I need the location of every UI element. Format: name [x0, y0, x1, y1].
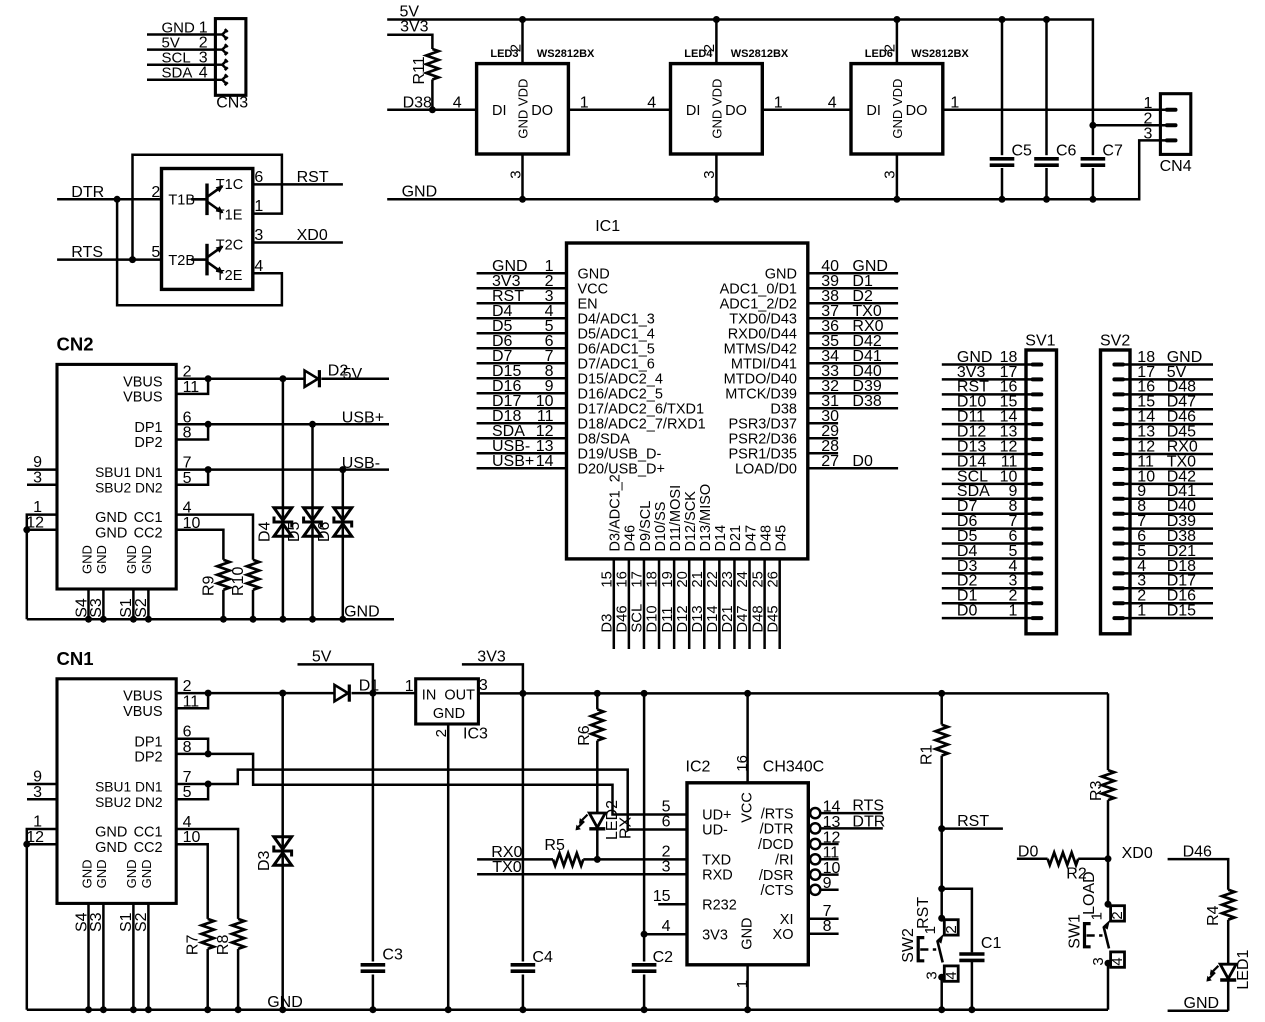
svg-text:VBUS: VBUS — [123, 390, 163, 406]
svg-text:D12: D12 — [675, 605, 691, 632]
svg-text:MTMS/D42: MTMS/D42 — [724, 341, 797, 357]
svg-text:/CTS: /CTS — [760, 883, 793, 899]
wire net D38 to LED3 DI — [387, 109, 476, 112]
SV2 pin 7 net D39 — [1124, 527, 1214, 530]
CN1 shield pin S3 — [102, 903, 105, 1010]
svg-text:T2C: T2C — [216, 237, 243, 253]
svg-text:RXD: RXD — [702, 868, 733, 884]
svg-text:3: 3 — [662, 858, 671, 875]
SV2 pin 8 net D40 — [1124, 512, 1214, 515]
svg-text:PSR2/D36: PSR2/D36 — [728, 431, 797, 447]
svg-text:D13/MISO: D13/MISO — [698, 484, 714, 552]
wire LED4 DO to LED6 DI — [762, 109, 851, 112]
svg-text:S2: S2 — [133, 598, 150, 618]
connector CN4 — [1160, 94, 1190, 155]
IC1 pin 12 D8/SDA — [477, 437, 567, 440]
wire LED3 GND pin 3 to GND — [521, 154, 524, 199]
IC2 pin 10 /DSR — [810, 870, 820, 880]
svg-text:IC1: IC1 — [595, 218, 620, 235]
svg-text:4: 4 — [1109, 957, 1126, 965]
svg-text:SBU1: SBU1 — [95, 780, 131, 795]
wire C1 branch — [942, 889, 972, 953]
svg-text:D15: D15 — [1167, 603, 1196, 620]
svg-text:D10: D10 — [645, 605, 661, 632]
junction R8 gnd — [235, 1006, 242, 1013]
IC1 pin 3 EN — [477, 302, 567, 305]
WS2812B LED LED4 — [671, 64, 763, 154]
SV2 pin 17 net 5V — [1124, 378, 1214, 381]
wire net GND rail bottom — [27, 1008, 1108, 1011]
svg-text:D47: D47 — [743, 525, 759, 552]
junction GND rail — [309, 616, 316, 623]
svg-text:3V3: 3V3 — [702, 927, 728, 943]
TVS diode D6 — [342, 470, 345, 620]
junction C5 GND — [999, 196, 1006, 203]
IC1 pin 36 RXD0/D44 — [808, 332, 898, 335]
wire C4 vertical — [522, 693, 525, 1009]
junction C7 pin2 — [1089, 122, 1096, 129]
wire R5 to IC2 TXD — [583, 858, 687, 861]
CN3 female pin 3 — [215, 63, 222, 65]
svg-text:PSR3/D37: PSR3/D37 — [728, 416, 797, 432]
IC2 pin 13 /DTR — [810, 823, 820, 833]
svg-text:SV2: SV2 — [1100, 332, 1130, 349]
capacitor C4 — [509, 962, 537, 975]
svg-text:TX0: TX0 — [492, 859, 521, 876]
SV1 pin 10 net SCL — [942, 483, 1033, 486]
IC2 pin 14 /RTS — [810, 808, 820, 818]
svg-text:3: 3 — [479, 677, 488, 694]
SV1 pin 18 net GND — [942, 363, 1033, 366]
svg-text:D15/ADC2_4: D15/ADC2_4 — [578, 371, 663, 387]
svg-text:/DSR: /DSR — [759, 868, 794, 884]
svg-text:C2: C2 — [653, 949, 674, 966]
SV2 pin 3 net D17 — [1124, 587, 1214, 590]
svg-text:D46: D46 — [615, 605, 631, 632]
svg-text:DO: DO — [906, 103, 928, 119]
svg-text:D13: D13 — [690, 605, 706, 632]
wire LED6 DO to CN4 pin 1 — [943, 109, 1167, 112]
svg-text:6: 6 — [254, 169, 263, 186]
junction 3V3/C2 top — [641, 690, 648, 697]
diode D2 — [305, 371, 319, 387]
SV2 pin 18 net GND — [1124, 363, 1214, 366]
svg-text:MTDI/D41: MTDI/D41 — [731, 356, 797, 372]
svg-text:D38: D38 — [770, 401, 797, 417]
svg-text:19: 19 — [660, 571, 676, 587]
transistor T2 — [205, 244, 208, 276]
LED LED1 — [1220, 964, 1236, 979]
SV2 pin 11 net TX0 — [1124, 468, 1214, 471]
svg-text:DN1: DN1 — [135, 780, 163, 795]
wire CN1 pin5 tie — [176, 784, 208, 799]
wire C3 vertical — [372, 693, 375, 1009]
svg-text:D48: D48 — [758, 525, 774, 552]
svg-text:SV1: SV1 — [1025, 332, 1055, 349]
IC1 pin 27 LOAD/D0 — [808, 467, 898, 470]
svg-text:D18/ADC2_7/RXD1: D18/ADC2_7/RXD1 — [578, 416, 706, 432]
CN2 shield pin S2 — [147, 589, 150, 619]
svg-text:GND: GND — [124, 545, 139, 574]
svg-text:4: 4 — [647, 94, 656, 111]
diode D1 — [335, 685, 349, 701]
svg-text:GND: GND — [94, 545, 109, 574]
svg-text:D19/USB_D-: D19/USB_D- — [578, 446, 662, 462]
junction C1 gnd — [968, 1006, 975, 1013]
wire SW1 to gnd rail — [1107, 963, 1110, 1010]
svg-text:GND: GND — [95, 840, 127, 856]
WS2812B LED LED3 — [477, 64, 569, 154]
svg-text:GND: GND — [139, 860, 154, 889]
wire R2 to XD0 — [1078, 858, 1108, 861]
junction CN2 DP — [205, 421, 212, 428]
wire net SCL to CN3 pin 3 — [147, 63, 215, 66]
SV2 pin 16 net D48 — [1124, 393, 1214, 396]
IC1 pin 11 D18/ADC2_7/RXD1 — [477, 422, 567, 425]
svg-text:D21: D21 — [728, 525, 744, 552]
wire T1 emitter link to RTS — [133, 155, 282, 260]
svg-text:UD-: UD- — [702, 823, 728, 839]
svg-text:2: 2 — [882, 44, 899, 52]
svg-text:4: 4 — [662, 918, 671, 935]
resistor R9 — [217, 560, 229, 590]
svg-text:D0: D0 — [957, 603, 978, 620]
wire net GND rail top — [387, 140, 1166, 199]
svg-text:4: 4 — [199, 65, 208, 82]
svg-text:3: 3 — [33, 469, 42, 486]
SV1 pin 2 net D1 — [942, 602, 1033, 605]
wire CN2 pin11 tie — [176, 379, 208, 394]
svg-text:24: 24 — [735, 571, 751, 587]
svg-text:C3: C3 — [382, 947, 403, 964]
svg-text:SBU2: SBU2 — [95, 480, 131, 495]
svg-text:ADC1_0/D1: ADC1_0/D1 — [720, 281, 797, 297]
svg-text:VCC: VCC — [740, 792, 756, 823]
svg-text:17: 17 — [630, 571, 646, 587]
TVS diode D3 — [281, 693, 284, 1010]
svg-text:D38: D38 — [852, 393, 881, 410]
svg-text:DO: DO — [531, 103, 553, 119]
IC1 pin 7 D7/ADC1_6 — [477, 362, 567, 365]
IC1 pin 28 PSR1/D35 — [808, 452, 838, 455]
svg-text:R1: R1 — [919, 744, 936, 765]
switch SW1 LOAD — [1105, 901, 1112, 908]
SV1 pin 12 net D13 — [942, 453, 1033, 456]
junction LED2 RX0 — [594, 856, 601, 863]
resistor R11 — [426, 49, 438, 80]
wire net 3V3 stub — [462, 664, 523, 693]
junction GND rail — [250, 616, 257, 623]
svg-text:3: 3 — [1090, 957, 1107, 965]
svg-text:LED1: LED1 — [1235, 949, 1252, 989]
SV2 pin 14 net D46 — [1124, 423, 1214, 426]
svg-text:GND: GND — [433, 706, 465, 722]
SV1 pin 1 net D0 — [942, 617, 1033, 620]
IC1 pin 17 D9/SCL — [643, 559, 646, 649]
svg-text:4: 4 — [828, 94, 837, 111]
svg-text:RXD0/D44: RXD0/D44 — [728, 326, 797, 342]
svg-text:T2B: T2B — [168, 253, 195, 269]
svg-text:5V: 5V — [312, 648, 332, 665]
IC2 pin 12 /DCD — [810, 839, 820, 849]
svg-text:SBU2: SBU2 — [95, 795, 131, 810]
wire LED6 GND pin 3 to GND — [896, 154, 899, 199]
IC1 pin 32 MTCK/D39 — [808, 392, 898, 395]
svg-text:D17/ADC2_6/TXD1: D17/ADC2_6/TXD1 — [578, 401, 705, 417]
wire D1 to IC3 IN — [352, 692, 416, 695]
wire CN2 left gnd pins — [27, 515, 57, 620]
svg-text:OUT: OUT — [444, 688, 475, 704]
junction RTS/T1E — [129, 256, 136, 263]
TVS diode D5 — [311, 424, 314, 619]
wire C6 vertical — [1045, 20, 1048, 200]
svg-text:D21: D21 — [720, 605, 736, 632]
svg-text:16: 16 — [734, 755, 751, 772]
svg-text:2: 2 — [701, 44, 718, 52]
svg-text:DI: DI — [492, 103, 507, 119]
wire net SDA to CN3 pin 4 — [147, 79, 215, 82]
resistor R10 — [247, 560, 259, 590]
svg-text:23: 23 — [720, 571, 736, 587]
svg-text:1: 1 — [774, 94, 783, 111]
svg-text:/RTS: /RTS — [761, 806, 794, 822]
IC1 pin 40 GND — [808, 272, 898, 275]
svg-text:R7: R7 — [185, 935, 202, 956]
junction R7 gnd — [204, 1006, 211, 1013]
svg-text:TXD: TXD — [702, 853, 731, 869]
IC1 pin 19 D11/MOSI — [673, 559, 676, 649]
SV2 pin 10 net D42 — [1124, 483, 1214, 486]
svg-text:GND: GND — [402, 184, 438, 201]
SV1 pin 9 net SDA — [942, 498, 1033, 501]
svg-text:R5: R5 — [544, 837, 565, 854]
IC1 pin 4 D4/ADC1_3 — [477, 317, 567, 320]
wire C7 vertical — [1092, 125, 1095, 199]
junction C6 5V — [1043, 16, 1050, 23]
svg-text:D46: D46 — [1183, 843, 1212, 860]
CN2 shield pin S4 — [87, 589, 90, 619]
svg-text:15: 15 — [653, 888, 671, 905]
svg-text:DO: DO — [725, 103, 747, 119]
svg-text:DP2: DP2 — [134, 750, 162, 766]
svg-text:SDA: SDA — [162, 65, 193, 82]
junction D3 gnd — [279, 1006, 286, 1013]
junction GND rail — [220, 616, 227, 623]
svg-text:DN1: DN1 — [135, 465, 163, 480]
junction CN1 DN — [205, 781, 212, 788]
svg-text:DI: DI — [866, 103, 881, 119]
IC1 pin 35 MTMS/D42 — [808, 347, 898, 350]
svg-text:DTR: DTR — [852, 813, 885, 830]
svg-text:D16/ADC2_5: D16/ADC2_5 — [578, 386, 663, 402]
wire CN1 pin4 CC1 to R8 — [176, 829, 238, 919]
capacitor C5 — [989, 155, 1015, 168]
CN2 shield pin S1 — [132, 589, 135, 619]
junction 5V/C3 — [369, 690, 376, 697]
svg-text:D11: D11 — [660, 607, 676, 633]
IC2 CH340C box — [687, 783, 808, 965]
SV2 pin 12 net RX0 — [1124, 453, 1214, 456]
svg-text:R3: R3 — [1088, 780, 1105, 801]
wire LED6 VDD pin 2 to 5V — [896, 20, 899, 64]
svg-text:D14: D14 — [713, 525, 729, 552]
SV2 pin 13 net D45 — [1124, 438, 1214, 441]
svg-text:D0: D0 — [1018, 843, 1039, 860]
svg-text:DN2: DN2 — [135, 480, 163, 495]
resistor R5 — [553, 853, 583, 865]
IC1 pin 30 PSR3/D37 — [808, 422, 838, 425]
svg-text:3V3: 3V3 — [400, 19, 429, 36]
svg-text:ADC1_2/D2: ADC1_2/D2 — [720, 296, 797, 312]
svg-text:D12/SCK: D12/SCK — [683, 491, 699, 552]
svg-text:T1B: T1B — [168, 193, 195, 209]
svg-text:D10/SS: D10/SS — [653, 502, 669, 552]
capacitor C2 — [630, 962, 658, 975]
IC1 pin 8 D15/ADC2_4 — [477, 377, 567, 380]
wire CN2 pin7 DN1 USB- — [176, 468, 389, 471]
IC3 regulator box — [416, 679, 479, 724]
connector SV2 — [1101, 350, 1131, 634]
junction C5 5V — [999, 16, 1006, 23]
IC1 pin 21 D13/MISO — [703, 559, 706, 649]
resistor R3 — [1107, 693, 1110, 770]
svg-text:IC3: IC3 — [463, 725, 488, 742]
svg-text:D48: D48 — [750, 605, 766, 632]
svg-text:GND: GND — [578, 266, 610, 282]
wire 3V3 to IC2 pin4 and C2 — [643, 693, 646, 1009]
svg-text:USB+: USB+ — [492, 453, 534, 470]
svg-text:GND VDD: GND VDD — [890, 79, 905, 139]
junction CN2 DN — [205, 466, 212, 473]
svg-text:GND: GND — [740, 917, 756, 949]
junction CN1 pin12 — [23, 841, 30, 848]
wire CN4 pin 2 to 5V — [1093, 124, 1167, 127]
svg-text:WS2812BX: WS2812BX — [731, 48, 789, 60]
junction C1 branch — [938, 885, 945, 892]
svg-text:C7: C7 — [1102, 142, 1123, 159]
wire CN1 left gnd pins — [27, 829, 57, 1010]
svg-text:DN2: DN2 — [135, 795, 163, 810]
svg-text:XD0: XD0 — [297, 227, 328, 244]
CN1 shield pin S1 — [132, 903, 135, 1010]
wire CN1 pin6 DP1 tie — [176, 739, 208, 754]
svg-text:R8: R8 — [215, 935, 232, 956]
svg-text:3: 3 — [1143, 126, 1152, 143]
svg-text:DP2: DP2 — [134, 435, 162, 451]
SV1 pin 5 net D4 — [942, 557, 1033, 560]
svg-text:/DCD: /DCD — [758, 837, 793, 853]
svg-text:1: 1 — [734, 980, 751, 988]
capacitor C6 — [1034, 155, 1060, 168]
wire CN1 pin2 VBUS to D1 — [176, 692, 334, 695]
transistor T1 — [205, 184, 208, 216]
junction GND rail — [279, 616, 286, 623]
svg-text:USB+: USB+ — [342, 410, 384, 427]
CN2 pin 9 SBU1 — [27, 468, 57, 471]
svg-text:XD0: XD0 — [1122, 845, 1153, 862]
svg-text:VBUS: VBUS — [123, 689, 163, 705]
wire net GND led1 — [1168, 1010, 1229, 1013]
IC1 pin 16 D46 — [628, 559, 631, 649]
svg-text:2: 2 — [507, 44, 524, 52]
svg-text:GND: GND — [95, 825, 127, 841]
svg-text:27: 27 — [821, 453, 839, 470]
svg-text:T1E: T1E — [216, 208, 243, 224]
svg-text:D45: D45 — [765, 605, 781, 632]
svg-text:D3: D3 — [256, 850, 273, 871]
svg-text:VCC: VCC — [578, 281, 609, 297]
connector CN1 box — [57, 679, 176, 904]
wire CN2 pin10 CC2 to R9 — [176, 530, 223, 560]
SV1 pin 13 net D12 — [942, 438, 1033, 441]
SV2 pin 6 net D38 — [1124, 542, 1214, 545]
svg-text:D45: D45 — [773, 525, 789, 552]
CN2 pin 3 SBU2 — [27, 484, 57, 487]
svg-text:3: 3 — [924, 971, 941, 979]
CN3 female pin 1 — [215, 33, 222, 35]
svg-text:R232: R232 — [702, 897, 737, 913]
svg-text:D4: D4 — [256, 521, 273, 542]
SV2 pin 4 net D18 — [1124, 572, 1214, 575]
svg-text:C1: C1 — [981, 935, 1002, 952]
wire net 3V3 to R11 — [387, 35, 432, 49]
svg-text:D9/SCL: D9/SCL — [638, 501, 654, 552]
svg-text:T2E: T2E — [216, 268, 243, 284]
TVS diode D4 — [282, 379, 285, 620]
junction CN2 VBUS — [205, 375, 212, 382]
junction CN1 DP — [205, 750, 212, 757]
svg-text:D4/ADC1_3: D4/ADC1_3 — [578, 311, 655, 327]
SV2 pin 2 net D16 — [1124, 602, 1214, 605]
SV2 pin 9 net D41 — [1124, 498, 1214, 501]
SV1 pin 7 net D6 — [942, 527, 1033, 530]
svg-text:D0: D0 — [852, 453, 873, 470]
svg-text:2: 2 — [151, 184, 160, 201]
CN4 male pin 2 — [1165, 123, 1178, 127]
svg-text:3: 3 — [254, 227, 263, 244]
svg-text:VBUS: VBUS — [123, 704, 163, 720]
junction GND rail — [339, 616, 346, 623]
IC1 pin 2 VCC — [477, 287, 567, 290]
IC1 pin 18 D10/SS — [658, 559, 661, 649]
CN3 female pin 4 — [215, 79, 222, 81]
svg-text:25: 25 — [750, 571, 766, 587]
svg-text:GND: GND — [765, 266, 797, 282]
svg-text:XI: XI — [780, 912, 794, 928]
SV2 pin 5 net D21 — [1124, 557, 1214, 560]
svg-text:3: 3 — [507, 170, 524, 178]
wire SW2 to gnd — [940, 977, 943, 1010]
svg-text:RST: RST — [915, 897, 932, 929]
svg-text:XO: XO — [773, 927, 794, 943]
IC1 pin 31 D38 — [808, 407, 898, 410]
svg-text:DI: DI — [686, 103, 701, 119]
capacitor C1 — [959, 952, 984, 956]
SV1 pin 15 net D10 — [942, 408, 1033, 411]
svg-text:SCL: SCL — [630, 604, 646, 633]
IC1 pin 38 ADC1_2/D2 — [808, 302, 898, 305]
svg-text:GND: GND — [124, 860, 139, 889]
wire net D0 to R2 — [1017, 858, 1048, 861]
wire C5 vertical — [1001, 20, 1004, 200]
svg-text:DP1: DP1 — [134, 420, 162, 436]
wire net 5V to CN3 pin 2 — [147, 48, 215, 51]
svg-text:16: 16 — [615, 571, 631, 587]
svg-text:CC2: CC2 — [134, 840, 163, 856]
svg-text:26: 26 — [765, 571, 781, 587]
SV1 pin 17 net 3V3 — [942, 378, 1033, 381]
capacitor C7 — [1080, 155, 1106, 168]
